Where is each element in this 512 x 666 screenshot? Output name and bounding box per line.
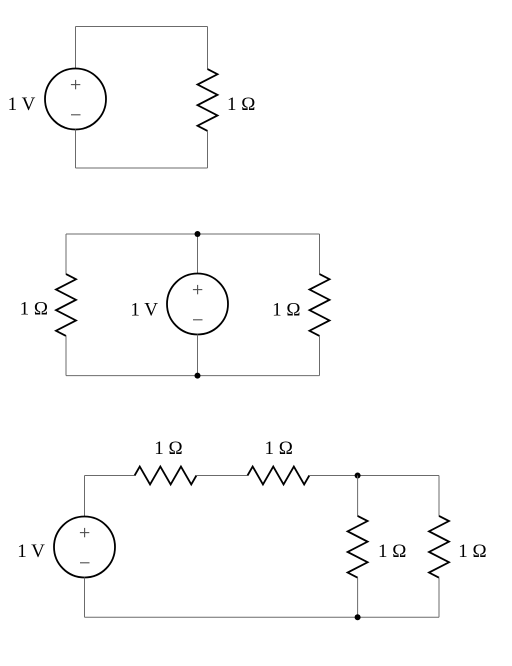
wire: circuit-2 centre branch below source [197,335,199,376]
node: circuit-3 top junction dot [355,473,361,479]
resistor R7 (1 ohm, parallel right) [429,516,449,578]
wire: circuit-3 right side above resistor [438,476,440,517]
svg-text:1 Ω: 1 Ω [154,438,182,459]
voltage source V2 (1 V) [167,274,228,335]
wire: circuit-2 right side above resistor [319,234,321,274]
wire: circuit-1 top side [76,26,208,28]
wire: circuit-2 left side above resistor [65,234,67,274]
voltage source V1 (1 V) [45,69,106,130]
svg-text:1 Ω: 1 Ω [227,94,255,115]
wire: circuit-1 right side below resistor [207,131,209,168]
svg-text:1 Ω: 1 Ω [458,541,486,562]
wire: circuit-1 left side above source [75,27,77,69]
node: circuit-3 bottom junction dot [355,614,361,620]
wire: circuit-2 bottom side [66,375,320,377]
wire: circuit-2 right side below resistor [319,336,321,376]
svg-text:1 V: 1 V [17,541,45,562]
resistor R1 (1 ohm) [198,69,218,131]
wire: circuit-2 left side below resistor [65,336,67,376]
node: circuit-2 top junction dot [195,231,201,237]
resistor R6 (1 ohm, parallel left) [348,516,368,578]
svg-text:1 Ω: 1 Ω [20,299,48,320]
wire: circuit-1 bottom side [76,167,208,169]
wire: circuit-3 middle branch above resistor [357,476,359,517]
wire: circuit-3 right side below resistor [438,578,440,618]
wire: circuit-3 top side right of second series resistor [309,475,439,477]
wire: circuit-3 left side below source [84,578,86,618]
svg-text:1 V: 1 V [130,299,158,320]
wire: circuit-2 centre branch above source [197,234,199,274]
wire: circuit-3 left side above source [84,476,86,517]
wire: circuit-3 middle branch below resistor [357,578,359,618]
svg-text:1 V: 1 V [8,94,36,115]
resistor R5 (1 ohm, second series) [248,467,310,485]
wire: circuit-1 left side below source [75,130,77,169]
wire: circuit-3 bottom side [85,616,440,618]
resistor R4 (1 ohm, first series) [135,467,197,485]
wire: circuit-3 top side left of first series resistor [85,475,135,477]
svg-text:1 Ω: 1 Ω [272,299,300,320]
resistor R3 (1 ohm, right) [310,274,330,336]
wire: circuit-2 top side [66,233,320,235]
voltage source V3 (1 V) [54,517,115,578]
resistor R2 (1 ohm, left) [56,274,76,336]
svg-text:1 Ω: 1 Ω [265,438,293,459]
wire: circuit-3 top side between series resistors [197,475,248,477]
wire: circuit-1 right side above resistor [207,27,209,70]
svg-text:1 Ω: 1 Ω [378,541,406,562]
node: circuit-2 bottom junction dot [195,373,201,379]
